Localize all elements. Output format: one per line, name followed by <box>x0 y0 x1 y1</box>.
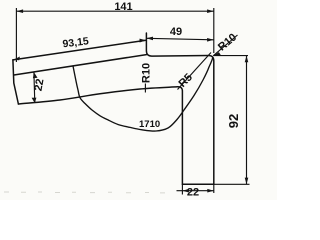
svg-text:49: 49 <box>170 26 182 38</box>
svg-text:22: 22 <box>33 78 47 92</box>
svg-text:R10: R10 <box>140 63 152 83</box>
svg-text:93,15: 93,15 <box>62 35 90 50</box>
svg-text:141: 141 <box>114 1 132 13</box>
svg-text:22: 22 <box>187 186 199 198</box>
svg-text:92: 92 <box>226 114 241 128</box>
svg-text:1710: 1710 <box>139 119 160 130</box>
